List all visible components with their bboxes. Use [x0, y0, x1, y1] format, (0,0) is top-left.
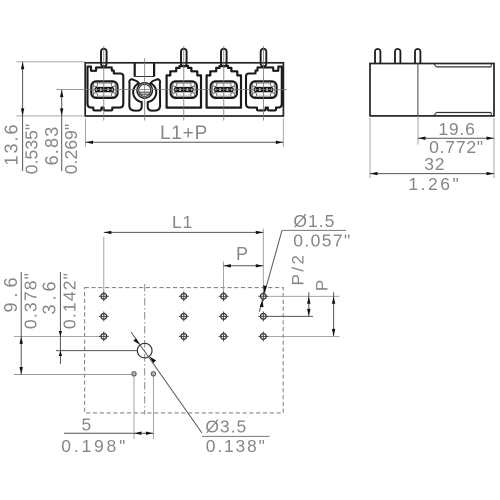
pole 3 crown	[207, 66, 241, 108]
dots line left	[14, 374, 132, 376]
paste dot left	[132, 372, 136, 376]
svg-text:0.198": 0.198"	[61, 436, 128, 456]
slot pole 4	[250, 81, 276, 98]
dashed outline rect	[85, 288, 284, 413]
side pin 1	[375, 49, 380, 65]
dim line 13.6	[22, 62, 24, 171]
ext line top	[17, 61, 86, 63]
svg-text:P: P	[313, 280, 332, 291]
dim line	[86, 141, 284, 143]
drill hole row2 col2	[179, 312, 189, 322]
screw drill circle	[137, 343, 152, 358]
slot pole 1	[91, 81, 117, 98]
ext line bottom	[17, 115, 86, 117]
P dim	[333, 292, 335, 336]
svg-text:L1+P: L1+P	[160, 123, 208, 144]
drill hole row1 col3	[219, 291, 229, 301]
connector body	[85, 63, 283, 116]
screw clamp cutout left hook	[129, 79, 141, 110]
svg-text:0.138": 0.138"	[206, 436, 267, 456]
svg-text:L1: L1	[172, 212, 193, 232]
screw flange top notch	[134, 64, 155, 77]
row line 3 right	[267, 335, 340, 337]
screw slot lines	[139, 91, 151, 93]
bottom recess line	[436, 112, 491, 114]
drill hole row1 col2	[179, 291, 189, 301]
ext lines from dots	[133, 377, 135, 440]
svg-text:0.535": 0.535"	[22, 124, 42, 175]
ext col4	[262, 229, 264, 294]
pin 4	[261, 49, 267, 67]
pole 1 outline (mirror of pole 4)	[88, 67, 124, 111]
ext line left edge	[369, 118, 371, 178]
svg-text:P: P	[236, 244, 248, 264]
dim line 6.83	[61, 90, 63, 171]
screw outer circle	[137, 83, 152, 98]
pin 3	[221, 49, 227, 67]
svg-text:6.83: 6.83	[42, 126, 62, 166]
drill hole row2 col4	[258, 312, 268, 322]
vertical dash-dot centerline	[144, 284, 146, 415]
drill hole row2 col1	[99, 312, 109, 322]
svg-text:3.6: 3.6	[40, 277, 60, 314]
pole 4 outline	[246, 67, 282, 111]
ext line left	[85, 119, 87, 147]
centerline pole 1	[103, 46, 105, 121]
slot pole 3	[211, 81, 237, 98]
row line 3 left	[14, 335, 101, 337]
screw clamp cutout right hook	[148, 79, 160, 110]
drill hole row1 col4	[258, 291, 268, 301]
row line 1 right	[267, 295, 340, 297]
ext line right edge	[493, 118, 495, 178]
pin 2	[181, 49, 187, 67]
screw axis line left	[56, 350, 137, 352]
svg-text:P/2: P/2	[289, 252, 308, 285]
svg-text:1.26": 1.26"	[408, 174, 461, 194]
drill hole row2 col3	[219, 312, 229, 322]
side pin 2	[395, 49, 400, 65]
svg-text:19.6: 19.6	[438, 119, 475, 139]
paste dot right	[151, 372, 155, 376]
svg-text:0.142": 0.142"	[60, 272, 80, 329]
dim line 9.6	[20, 272, 22, 375]
ext col1	[103, 237, 105, 293]
horizontal centerline	[57, 89, 288, 91]
centerline pole 2	[183, 46, 185, 121]
P/2 dim	[308, 292, 310, 316]
svg-text:Ø3.5: Ø3.5	[205, 417, 247, 437]
dim line	[64, 432, 153, 434]
side pin 3	[415, 49, 420, 65]
svg-text:0.057": 0.057"	[293, 230, 351, 250]
svg-text:Ø1.5: Ø1.5	[293, 211, 335, 231]
drill hole row3 col2	[179, 332, 189, 342]
row line 2 right	[267, 315, 314, 317]
drill hole row3 col4	[258, 332, 268, 342]
svg-text:5: 5	[82, 414, 92, 434]
svg-text:0.269": 0.269"	[61, 124, 81, 175]
svg-text:13.6: 13.6	[2, 122, 22, 165]
inner vertical line at pin 3	[417, 64, 419, 116]
side body	[370, 64, 494, 116]
drill hole row3 col3	[219, 332, 229, 342]
dim line 19.6	[418, 137, 494, 139]
ext line pin3	[417, 116, 419, 145]
centerline pole 3	[223, 46, 225, 121]
drill hole row3 col1	[99, 332, 109, 342]
ext line right	[282, 119, 284, 147]
dim line 32	[370, 173, 494, 175]
pin 1	[101, 49, 107, 67]
top recess line	[436, 66, 491, 68]
centerline pole 4	[263, 46, 265, 121]
drill hole row1 col1	[99, 291, 109, 301]
pole 2 crown	[167, 66, 201, 108]
centerline screw	[144, 58, 146, 121]
svg-text:9.6: 9.6	[1, 272, 21, 312]
svg-text:32: 32	[424, 154, 445, 174]
slot pole 2	[171, 81, 197, 98]
screw inner circle	[139, 84, 151, 96]
dim line 3.6	[59, 272, 61, 364]
ext col3	[222, 262, 224, 294]
svg-text:0.378": 0.378"	[21, 272, 41, 329]
